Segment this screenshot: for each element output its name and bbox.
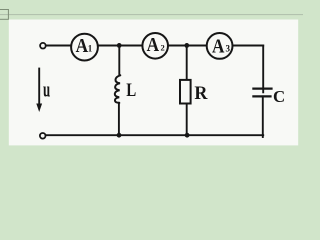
wire top: A3 to right corner [233, 45, 263, 47]
wire top: terminal to A1 [46, 45, 71, 47]
svg-text:2: 2 [160, 42, 164, 52]
svg-text:A: A [212, 35, 225, 58]
wire capacitor to bottom [262, 96, 264, 137]
svg-text:A: A [76, 35, 89, 58]
svg-text:A: A [147, 34, 160, 57]
svg-text:L: L [126, 79, 136, 100]
faint table rule across top [0, 14, 303, 15]
wire R branch lower [186, 103, 188, 135]
source arrow u [36, 68, 42, 112]
capacitor C plates [252, 89, 272, 97]
node junction top L [117, 43, 122, 48]
svg-text:R: R [194, 83, 208, 103]
ammeter A3 [207, 33, 233, 59]
terminal bottom-left [40, 133, 46, 139]
ammeter A1 [71, 34, 98, 61]
table cell corner box top-left [0, 9, 9, 20]
svg-text:1: 1 [88, 43, 93, 53]
node junction top R [184, 43, 189, 48]
wire L branch upper [118, 46, 120, 76]
terminal top-left [40, 43, 46, 49]
white figure panel [9, 20, 298, 146]
wire right vertical down to capacitor [262, 46, 264, 93]
resistor R body [180, 80, 191, 104]
ammeter A2 [142, 33, 168, 59]
wire R branch upper [186, 46, 188, 81]
wire bottom rail [46, 134, 263, 136]
node junction bottom L [117, 133, 122, 138]
wire top: A2 to A3 (through node) [169, 45, 206, 47]
page background [0, 0, 303, 156]
wire top: A1 to A2 (through node) [99, 45, 142, 47]
svg-text:u: u [43, 77, 50, 101]
node junction bottom R [185, 133, 190, 138]
wire L branch lower [118, 103, 120, 135]
svg-text:3: 3 [225, 43, 230, 53]
svg-text:C: C [273, 87, 285, 106]
inductor L coil [115, 75, 121, 103]
